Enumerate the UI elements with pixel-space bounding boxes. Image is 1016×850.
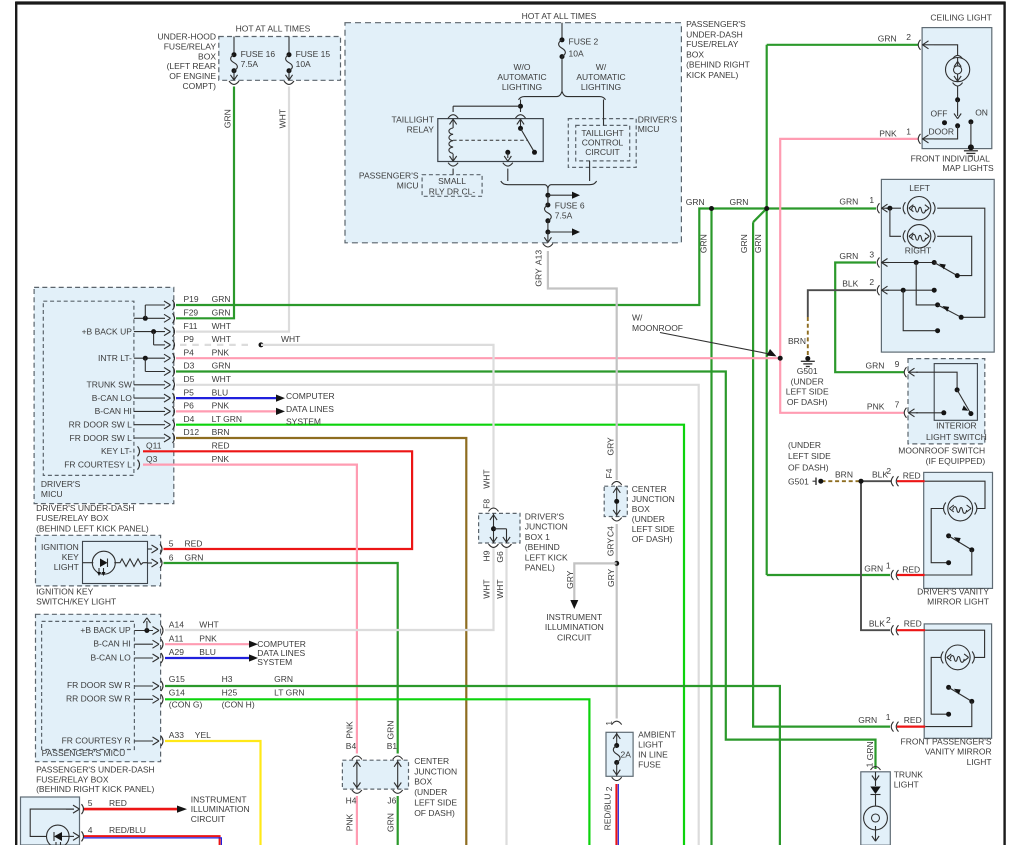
svg-text:SWITCH/KEY LIGHT: SWITCH/KEY LIGHT — [36, 597, 116, 607]
svg-text:RED: RED — [904, 715, 922, 725]
wire WHT D5 trunk switch — [176, 385, 699, 845]
relay coil top arrow — [452, 120, 454, 128]
wire RED drivers vanity pin1 stub — [897, 574, 925, 576]
svg-text:G6: G6 — [495, 551, 505, 563]
svg-text:RED: RED — [903, 471, 921, 481]
svg-text:ILLUMINATION: ILLUMINATION — [191, 804, 250, 814]
svg-text:GRN: GRN — [386, 813, 396, 832]
trunk light box — [861, 772, 891, 845]
wire BLK G501 to vanity lights — [861, 481, 892, 630]
connector passenger vanity pin1 — [891, 722, 893, 732]
svg-text:PASSENGER'S: PASSENGER'S — [359, 171, 419, 181]
svg-text:JUNCTION: JUNCTION — [632, 494, 675, 504]
svg-text:7.5A: 7.5A — [241, 59, 259, 69]
relay coil — [449, 128, 453, 153]
svg-text:KEY: KEY — [62, 552, 79, 562]
svg-text:UNDER-DASH: UNDER-DASH — [686, 29, 743, 39]
driver's vanity lamp — [948, 496, 973, 521]
svg-text:D3: D3 — [184, 361, 195, 371]
svg-text:B-CAN LO: B-CAN LO — [91, 652, 132, 662]
connector relay switch top — [516, 115, 526, 118]
wire GRN bus diagonal — [753, 209, 767, 223]
+B BACK UP fanout — [134, 331, 165, 333]
svg-text:INTERIOR: INTERIOR — [936, 421, 977, 431]
svg-text:GRY: GRY — [606, 568, 616, 587]
passenger's MICU pin connectors — [134, 630, 153, 632]
P19/F29 fanout — [134, 317, 165, 319]
svg-text:WHT: WHT — [482, 469, 492, 488]
svg-text:FR COURTESY R: FR COURTESY R — [62, 735, 131, 745]
svg-text:GRN: GRN — [686, 197, 705, 207]
junction dot PNK P4/ceiling — [778, 356, 783, 361]
svg-text:W/: W/ — [596, 62, 607, 72]
svg-text:7: 7 — [895, 400, 900, 410]
svg-text:MOONROOF: MOONROOF — [632, 323, 683, 333]
wire GRY C4 to ambient fuse pin1 — [616, 524, 618, 719]
center junction box B4/B1 internals — [356, 760, 358, 789]
svg-text:FUSE 16: FUSE 16 — [241, 49, 276, 59]
svg-text:LIGHT: LIGHT — [894, 780, 919, 790]
svg-text:KEY LT-: KEY LT- — [101, 446, 132, 456]
trunk light internals — [875, 772, 877, 786]
ceiling light bulb — [953, 55, 963, 58]
wire GRN ignition pin6 — [164, 563, 398, 754]
svg-text:GRN: GRN — [866, 361, 885, 371]
svg-text:UNDER-HOOD: UNDER-HOOD — [157, 32, 216, 42]
svg-text:(UNDER: (UNDER — [791, 376, 824, 386]
svg-text:F4: F4 — [604, 468, 614, 478]
svg-text:RR DOOR SW L: RR DOOR SW L — [69, 420, 133, 430]
wire GRN riser to rear lights — [710, 209, 712, 846]
connector trunk pin1 — [871, 767, 881, 770]
connector ceiling pin2 — [918, 40, 920, 50]
svg-text:1: 1 — [886, 561, 891, 571]
svg-text:RED: RED — [212, 441, 230, 451]
connector map pin3 — [877, 258, 879, 268]
svg-text:B-CAN HI: B-CAN HI — [95, 406, 132, 416]
svg-text:WHT: WHT — [495, 579, 505, 598]
ground ceiling light — [968, 144, 974, 150]
svg-text:PNK: PNK — [879, 128, 897, 138]
svg-text:(BEHIND RIGHT: (BEHIND RIGHT — [686, 60, 750, 70]
border frame — [16, 1, 1005, 4]
svg-text:GRN: GRN — [212, 361, 231, 371]
svg-text:B1: B1 — [387, 741, 398, 751]
svg-text:2: 2 — [886, 466, 891, 476]
svg-text:FRONT PASSENGER'S: FRONT PASSENGER'S — [901, 737, 992, 747]
svg-text:BLK: BLK — [869, 619, 885, 629]
svg-text:PNK: PNK — [212, 347, 230, 357]
svg-text:LT GRN: LT GRN — [212, 414, 242, 424]
svg-text:WHT: WHT — [278, 109, 288, 128]
arrow w/ moonroof — [660, 333, 772, 355]
wire BRN dashed to G501 — [807, 317, 809, 359]
svg-text:P5: P5 — [184, 387, 195, 397]
connector relay coil top — [448, 115, 458, 118]
passenger's vanity lamp — [945, 645, 970, 670]
connector G6 — [502, 544, 512, 547]
svg-text:VANITY MIRROR: VANITY MIRROR — [925, 747, 992, 757]
svg-text:P4: P4 — [184, 347, 195, 357]
svg-text:JUNCTION: JUNCTION — [414, 766, 457, 776]
computer data lines arrows — [276, 395, 285, 402]
ambient light in line fuse 2A — [616, 732, 618, 745]
map left lamp switch — [938, 305, 962, 317]
svg-text:B-CAN LO: B-CAN LO — [92, 393, 133, 403]
ignition key light pin5 connector — [148, 548, 153, 550]
svg-text:10A: 10A — [296, 59, 311, 69]
svg-text:FR DOOR SW R: FR DOOR SW R — [67, 680, 131, 690]
svg-text:PNK: PNK — [345, 813, 355, 831]
brace w/o-w/ automatic lighting — [519, 91, 606, 100]
moonroof switch box — [908, 359, 985, 444]
svg-text:C4: C4 — [606, 526, 616, 537]
svg-text:FR COURTESY L: FR COURTESY L — [64, 459, 132, 469]
svg-text:CENTER: CENTER — [414, 756, 449, 766]
svg-text:PASSENGER'S: PASSENGER'S — [686, 19, 746, 29]
driver's MICU box (left) — [43, 301, 134, 475]
wire WHT fuse15 to F11 — [176, 87, 289, 332]
passenger's MICU small relay box — [422, 175, 482, 197]
svg-text:CIRCUIT: CIRCUIT — [557, 632, 591, 642]
svg-text:+B BACK UP: +B BACK UP — [80, 625, 131, 635]
svg-text:BLU: BLU — [212, 387, 229, 397]
svg-text:+B BACK UP: +B BACK UP — [82, 327, 133, 337]
wire GRY instrument illumination branch — [574, 563, 616, 600]
wire GRN ceiling-to-vanity riser — [766, 45, 768, 575]
fuse 6 7.5A — [547, 188, 549, 195]
junction dot BLK/BRN lower G501 — [859, 479, 864, 484]
ignition key light box — [36, 535, 161, 586]
svg-text:OF DASH): OF DASH) — [414, 808, 455, 818]
center junction box (B4/B1) — [342, 760, 408, 789]
svg-text:GRN: GRN — [699, 234, 709, 253]
wire GRN D3 to trunk light — [176, 372, 876, 770]
connector H9 — [489, 544, 499, 547]
svg-text:GRN: GRN — [865, 741, 875, 760]
svg-text:PNK: PNK — [199, 633, 217, 643]
ceiling light switch — [957, 86, 959, 100]
ignition key light LED — [92, 551, 115, 574]
wire PNK H4 down — [356, 796, 358, 845]
svg-text:5: 5 — [88, 798, 93, 808]
relay actuation dashed link — [453, 139, 528, 141]
svg-text:LEFT SIDE: LEFT SIDE — [786, 387, 829, 397]
svg-text:OF DASH): OF DASH) — [788, 463, 829, 473]
relay switch — [518, 126, 523, 131]
svg-text:5: 5 — [169, 538, 174, 548]
svg-text:WHT: WHT — [212, 374, 231, 384]
svg-text:GRY: GRY — [606, 538, 616, 557]
svg-text:PNK: PNK — [345, 721, 355, 739]
ceiling light internals wire — [934, 45, 958, 55]
svg-text:(CON G): (CON G) — [169, 699, 203, 709]
driver's vanity internal wiring — [925, 481, 985, 508]
taillight control circuit box — [576, 125, 630, 160]
svg-text:D4: D4 — [184, 414, 195, 424]
merge brace to fuse 6 — [501, 181, 597, 188]
svg-text:2: 2 — [886, 615, 891, 625]
svg-text:LIGHT: LIGHT — [638, 739, 663, 749]
svg-text:IGNITION KEY: IGNITION KEY — [36, 587, 93, 597]
bottom box pin4 connector — [69, 835, 74, 837]
svg-text:CIRCUIT: CIRCUIT — [191, 814, 225, 824]
svg-text:10A: 10A — [569, 48, 584, 58]
connector interior pin7 — [904, 408, 906, 418]
wire WHT H9 to A14 — [165, 547, 494, 630]
svg-text:1: 1 — [906, 127, 911, 137]
svg-text:GRN: GRN — [212, 308, 231, 318]
svg-text:LIGHT SWITCH: LIGHT SWITCH — [926, 432, 987, 442]
svg-text:KICK PANEL): KICK PANEL) — [686, 70, 738, 80]
svg-text:(BEHIND LEFT KICK PANEL): (BEHIND LEFT KICK PANEL) — [36, 523, 149, 533]
svg-text:BRN: BRN — [212, 427, 230, 437]
svg-text:BOX: BOX — [414, 777, 432, 787]
svg-text:PASSENGER'S MICU: PASSENGER'S MICU — [42, 748, 126, 758]
map lights internal wiring — [886, 207, 901, 209]
svg-text:(UNDER: (UNDER — [788, 440, 821, 450]
connector drivers vanity pin2 — [891, 476, 893, 486]
svg-text:MICU: MICU — [41, 489, 63, 499]
svg-text:PNK: PNK — [212, 401, 230, 411]
fuse 15 10A — [288, 37, 290, 55]
svg-text:W/: W/ — [632, 312, 643, 322]
connector ambient pin2 — [612, 777, 622, 780]
svg-text:GRN: GRN — [858, 715, 877, 725]
svg-text:DRIVER'S: DRIVER'S — [41, 479, 81, 489]
driver's junction box 1 internals — [493, 513, 495, 522]
connector relay switch bottom — [503, 163, 513, 166]
taillight relay U1 box — [438, 119, 543, 162]
svg-text:3: 3 — [869, 249, 874, 259]
svg-text:BOX: BOX — [632, 504, 650, 514]
svg-text:2A: 2A — [621, 749, 632, 759]
svg-text:TRUNK: TRUNK — [894, 770, 924, 780]
svg-text:WHT: WHT — [281, 334, 300, 344]
bottom box LED — [47, 825, 70, 848]
wire control circuit to merge brace — [589, 161, 591, 181]
svg-text:BRN: BRN — [835, 470, 853, 480]
svg-text:GRN: GRN — [753, 234, 763, 253]
svg-text:AUTOMATIC: AUTOMATIC — [497, 72, 546, 82]
passenger's under-dash fuse/relay box (left) — [36, 614, 161, 761]
wire PNK ceiling pin1 to P4 and interior switch — [780, 139, 918, 413]
svg-text:GRN: GRN — [739, 234, 749, 253]
instrument illumination arrow middle — [570, 600, 578, 609]
center junction box (F4/C4) — [604, 486, 627, 516]
connector below fuse16 — [229, 81, 239, 84]
svg-text:1: 1 — [869, 195, 874, 205]
svg-text:1: 1 — [604, 721, 614, 726]
connector relay coil bottom — [448, 163, 458, 166]
svg-text:4: 4 — [88, 825, 93, 835]
svg-text:IN LINE: IN LINE — [638, 750, 668, 760]
connector below fuse15 — [284, 81, 294, 84]
svg-text:COMPUTER: COMPUTER — [286, 391, 335, 401]
wire GRN passenger vanity riser — [753, 222, 890, 726]
svg-text:9: 9 — [895, 359, 900, 369]
svg-text:IGNITION: IGNITION — [41, 542, 79, 552]
svg-text:G501: G501 — [788, 476, 809, 486]
wire BLU A29 b-can lo — [165, 657, 249, 659]
svg-text:GRN: GRN — [730, 197, 749, 207]
junction dot GRN bus 2 — [764, 206, 769, 211]
svg-text:GRN: GRN — [274, 674, 293, 684]
pin Q11 connector — [138, 446, 140, 456]
svg-text:LT GRN: LT GRN — [274, 687, 304, 697]
wire GRN drivers vanity pin1 feed — [767, 574, 890, 576]
svg-text:B4: B4 — [346, 741, 357, 751]
wire RED passenger vanity pin2 stub — [897, 629, 925, 631]
svg-text:DRIVER'S: DRIVER'S — [525, 512, 565, 522]
wire RED instrument illumination feed — [84, 808, 177, 811]
svg-text:GRN: GRN — [212, 294, 231, 304]
svg-text:SYSTEM: SYSTEM — [286, 417, 321, 427]
svg-text:FUSE: FUSE — [638, 760, 661, 770]
wire GRN G15/H3 fr door sw r — [165, 686, 780, 845]
under-hood fuse/relay box — [219, 37, 341, 81]
wire WHT P9 to junction box F8 — [261, 345, 494, 509]
connector passenger vanity pin2 — [891, 625, 893, 635]
svg-text:(UNDER: (UNDER — [632, 514, 665, 524]
+B BACK UP fanout passenger — [134, 630, 153, 632]
center junction box F4/C4 internals — [616, 486, 618, 516]
svg-text:7.5A: 7.5A — [555, 211, 573, 221]
svg-text:BRN: BRN — [788, 336, 806, 346]
svg-text:2: 2 — [604, 786, 614, 791]
svg-text:OF ENGINE: OF ENGINE — [169, 71, 216, 81]
map left lamp — [907, 197, 930, 220]
svg-text:B-CAN HI: B-CAN HI — [93, 639, 130, 649]
svg-text:AUTOMATIC: AUTOMATIC — [576, 72, 625, 82]
svg-text:BOX 1: BOX 1 — [525, 532, 550, 542]
svg-text:D5: D5 — [184, 374, 195, 384]
svg-text:H3: H3 — [222, 674, 233, 684]
svg-text:DRIVER'S: DRIVER'S — [638, 115, 678, 125]
svg-text:RR DOOR SW R: RR DOOR SW R — [66, 693, 131, 703]
passenger's MICU box — [42, 621, 135, 749]
svg-text:DRIVER'S VANITY: DRIVER'S VANITY — [917, 587, 989, 597]
wire PNK A11 b-can hi — [165, 643, 249, 645]
driver's junction box 1 — [479, 513, 520, 543]
wire RED Q11 to ignition key light pin5 — [143, 451, 412, 549]
svg-text:GRN: GRN — [223, 109, 233, 128]
front passenger's vanity mirror light box — [924, 624, 991, 738]
svg-text:CIRCUIT: CIRCUIT — [585, 147, 619, 157]
svg-text:OFF: OFF — [931, 109, 948, 119]
svg-text:CENTER: CENTER — [632, 484, 667, 494]
svg-text:G501: G501 — [797, 366, 818, 376]
svg-text:BOX: BOX — [686, 50, 704, 60]
svg-text:COMPT): COMPT) — [182, 81, 216, 91]
svg-text:Q11: Q11 — [146, 441, 162, 451]
wire GRN fuse16 to F29 — [176, 87, 234, 319]
wire GRN map pin3 to interior switch pin9 — [835, 263, 904, 373]
svg-text:AMBIENT: AMBIENT — [638, 729, 676, 739]
svg-text:GRN: GRN — [839, 197, 858, 207]
svg-text:A13: A13 — [533, 250, 543, 265]
svg-text:RIGHT: RIGHT — [905, 246, 931, 256]
wire GRN ceiling light pin2 feed — [767, 44, 918, 46]
wire GRN J6 down — [397, 796, 399, 845]
connector B4 — [352, 756, 362, 759]
svg-text:JUNCTION: JUNCTION — [525, 522, 568, 532]
svg-text:BOX: BOX — [198, 51, 216, 61]
svg-text:INSTRUMENT: INSTRUMENT — [546, 612, 602, 622]
wire to taillight relay side — [520, 100, 522, 113]
svg-text:SYSTEM: SYSTEM — [257, 657, 292, 667]
wire RED passenger vanity pin1 stub — [897, 725, 925, 727]
wire YEL A33 fr courtesy r — [165, 741, 261, 845]
driver's under-dash fuse/relay box — [34, 287, 174, 503]
svg-text:RED: RED — [902, 565, 920, 575]
svg-text:INTR LT-: INTR LT- — [98, 353, 132, 363]
passenger under-dash fuse/relay box (top center) — [345, 23, 681, 243]
driver's MICU pin connectors — [164, 301, 171, 305]
passenger's under-dash fuse/relay box (bottom) — [21, 797, 80, 845]
svg-text:GRN: GRN — [839, 251, 858, 261]
svg-text:RED: RED — [185, 538, 203, 548]
svg-text:ILLUMINATION: ILLUMINATION — [545, 622, 604, 632]
wire RED drivers vanity pin2 stub — [897, 480, 925, 482]
junction dot GRN bus 1 — [709, 206, 714, 211]
wire relay coil to small rly box — [452, 169, 454, 175]
map right lamp switch — [934, 263, 957, 276]
svg-text:P6: P6 — [184, 401, 195, 411]
svg-text:WHT: WHT — [212, 334, 231, 344]
svg-text:BLK: BLK — [842, 279, 858, 289]
connector map pin1 — [877, 203, 879, 213]
svg-text:RED/BLU: RED/BLU — [602, 794, 612, 831]
svg-text:LIGHTING: LIGHTING — [502, 82, 542, 92]
svg-text:FUSE/RELAY: FUSE/RELAY — [686, 39, 739, 49]
svg-text:G15: G15 — [169, 674, 185, 684]
svg-text:GRN: GRN — [386, 721, 396, 740]
svg-text:GRN: GRN — [864, 564, 883, 574]
svg-text:D12: D12 — [184, 427, 200, 437]
svg-text:FUSE/RELAY BOX: FUSE/RELAY BOX — [36, 775, 109, 785]
wire WHT P9 dashed segment — [180, 344, 252, 346]
svg-text:LIGHT: LIGHT — [54, 562, 79, 572]
driver's vanity mirror light box — [924, 472, 993, 588]
svg-text:INSTRUMENT: INSTRUMENT — [191, 794, 247, 804]
ignition key light pin6 connector — [148, 562, 153, 564]
svg-text:GRN: GRN — [185, 552, 204, 562]
svg-text:GRY: GRY — [533, 268, 543, 287]
map pin2 wiring — [886, 289, 934, 291]
front individual map lights box — [881, 179, 994, 352]
svg-text:YEL: YEL — [195, 730, 211, 740]
svg-text:WHT: WHT — [482, 579, 492, 598]
connector B1 — [393, 756, 403, 759]
bottom box pin5 connector — [66, 808, 74, 810]
connector H4 — [352, 790, 362, 793]
svg-text:MOONROOF SWITCH: MOONROOF SWITCH — [898, 446, 985, 456]
svg-text:FUSE/RELAY BOX: FUSE/RELAY BOX — [36, 513, 109, 523]
svg-text:DRIVER'S UNDER-DASH: DRIVER'S UNDER-DASH — [36, 503, 134, 513]
junction dot P9 WHT — [259, 342, 264, 347]
driver's MICU box (top) — [568, 119, 636, 168]
svg-text:TRUNK SW: TRUNK SW — [87, 380, 132, 390]
svg-text:(CON H): (CON H) — [222, 699, 255, 709]
svg-text:LEFT SIDE: LEFT SIDE — [788, 451, 831, 461]
svg-text:2: 2 — [906, 32, 911, 42]
svg-text:RLY DR CL-: RLY DR CL- — [429, 186, 476, 196]
wire PNK P6 b-can hi — [176, 410, 276, 412]
svg-text:TAILLIGHT: TAILLIGHT — [392, 115, 434, 125]
interior switch internals — [916, 372, 957, 390]
svg-text:P19: P19 — [184, 294, 199, 304]
